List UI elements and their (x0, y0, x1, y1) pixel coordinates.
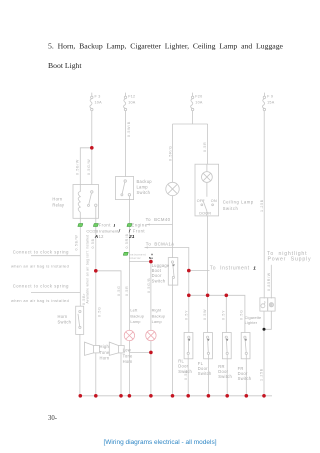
svg-text:0.5W/B: 0.5W/B (127, 121, 131, 137)
wire to BCM40 stub (147, 224, 173, 226)
svg-text:DOOR: DOOR (199, 212, 211, 216)
high tone horn (85, 342, 100, 355)
FR door switch box (241, 333, 250, 359)
svg-text:ON: ON (211, 199, 217, 203)
components group (73, 164, 275, 359)
svg-text:1.25B: 1.25B (260, 368, 264, 381)
arrow from BCMA1A (145, 247, 148, 249)
svg-text:Horn: Horn (123, 359, 133, 364)
wire tee to luggage boot light (172, 124, 174, 182)
svg-text:Backup: Backup (130, 313, 144, 318)
wire horn switch to ground bus (79, 334, 81, 395)
svg-text:0.5G/W: 0.5G/W (87, 159, 91, 175)
horn relay K1 box (73, 185, 99, 219)
node bus FR (245, 394, 249, 398)
svg-text:10A: 10A (128, 100, 136, 104)
svg-text:Switch: Switch (238, 376, 252, 381)
fuse F3 (90, 93, 93, 111)
wire RL door switch drop (188, 295, 190, 332)
cigarette lighter illumination lamp (269, 303, 273, 307)
wire tee horizontal (173, 123, 208, 125)
svg-text:Power Supply: Power Supply (268, 256, 312, 262)
svg-text:0.5W: 0.5W (203, 309, 207, 320)
svg-text:Switch: Switch (152, 278, 166, 283)
wire RR door switch to ground bus (226, 359, 228, 396)
svg-text:0.5B/W: 0.5B/W (75, 235, 79, 251)
svg-text:0.5Y: 0.5Y (222, 310, 226, 320)
svg-text:Tone: Tone (100, 350, 110, 355)
connector green engine (127, 224, 132, 227)
node C junction backup (149, 260, 153, 264)
svg-text:Relay: Relay (52, 202, 65, 207)
svg-text:when an air bag is installed: when an air bag is installed (11, 298, 69, 303)
svg-text:0.5R: 0.5R (125, 286, 129, 296)
node bus left backup (128, 394, 132, 398)
node bus right backup (149, 394, 153, 398)
luggage boot door switch contact (171, 261, 174, 285)
svg-text:0.85R/W: 0.85R/W (267, 272, 271, 291)
node H backup lamps join (149, 351, 153, 355)
svg-text:Engine: Engine (132, 223, 148, 228)
wire clock spring stub 2 (31, 291, 80, 293)
node bus high tone (94, 394, 98, 398)
fuse F20 (191, 93, 194, 111)
svg-text:/: / (118, 229, 121, 234)
svg-text:Connect to clock spring: Connect to clock spring (13, 284, 69, 289)
wire tee to ceiling lamp switch (207, 124, 209, 164)
texts group (11, 121, 311, 381)
wire clock spring stub 1 (31, 255, 80, 257)
node bus low tone (119, 394, 123, 398)
wire right backup lamp to ground bus (150, 340, 152, 396)
node cigarette lighter join (263, 328, 266, 331)
wire connector to high tone horn (95, 227, 97, 346)
node A junction (90, 146, 94, 150)
svg-text:F12: F12 (128, 95, 135, 99)
cigarette lighter element box (260, 298, 268, 311)
svg-text:Right: Right (152, 308, 162, 313)
svg-text:RL: RL (178, 358, 184, 363)
svg-text:Switch: Switch (137, 190, 151, 195)
node E rail RL (187, 294, 191, 298)
horn switch contact (78, 310, 81, 328)
svg-text:[Wiring diagrams electrical -: [Wiring diagrams electrical - all models… (103, 439, 216, 446)
wire left backup lamp to ground bus (128, 340, 130, 396)
svg-text:0.5G: 0.5G (240, 309, 244, 320)
svg-text:I: I (114, 223, 116, 228)
node D junction instrument (187, 269, 191, 273)
svg-text:Switch: Switch (58, 319, 72, 324)
svg-text:Front: Front (99, 223, 112, 228)
ceiling lamp switch lever (201, 200, 214, 216)
luggage boot light (166, 182, 179, 195)
RR door switch box (222, 333, 231, 359)
wire RL door switch to ground bus (187, 359, 189, 396)
wire nightlight supply to cigarette lighter lamp (270, 265, 272, 299)
luggage boot door switch box (168, 258, 178, 286)
horn switch box (76, 306, 84, 334)
wire backup lamp switch to engine connector (128, 200, 130, 224)
svg-text:OFF: OFF (197, 199, 206, 203)
svg-text:0.5G: 0.5G (97, 306, 101, 317)
svg-text:Backup: Backup (137, 179, 153, 184)
svg-text:0.5B: 0.5B (184, 370, 188, 380)
ground bus (79, 395, 273, 397)
svg-text:1: 1 (253, 265, 256, 270)
svg-text:No: No (149, 256, 153, 260)
svg-text:Tone: Tone (123, 353, 133, 358)
node bus cigarette (262, 394, 266, 398)
svg-text:Horn: Horn (58, 314, 68, 319)
left backup lamp (124, 330, 134, 340)
svg-text:F20: F20 (195, 95, 202, 99)
svg-text:10A: 10A (95, 100, 103, 104)
svg-text:0.5B/W: 0.5B/W (75, 159, 79, 175)
ceiling lamp (202, 164, 213, 197)
svg-text:Switch: Switch (218, 374, 232, 379)
wire node A branch to relay coil (80, 148, 92, 185)
wire cigarette lighter element out (263, 311, 265, 329)
backup lamp switch box (116, 177, 134, 200)
node bus RL (186, 394, 190, 398)
wire F20 to tee (192, 111, 194, 124)
svg-text:0.5G/B: 0.5G/B (147, 278, 151, 293)
wire F9 to cigarette lighter (263, 111, 265, 299)
wire from BCMA1A (145, 248, 189, 296)
wire relay coil out to connector (79, 218, 81, 223)
low tone horn (109, 342, 124, 355)
node bus horn switch (79, 394, 83, 398)
connector green relay switch (93, 224, 98, 227)
svg-text:Lamp: Lamp (152, 319, 162, 324)
wire low tone horn to ground bus (120, 353, 122, 396)
svg-text:12: 12 (99, 234, 105, 239)
svg-text:Horn: Horn (100, 356, 110, 361)
right backup lamp (146, 330, 156, 340)
arrow to BCM40 (147, 224, 150, 226)
svg-text:Lighter: Lighter (245, 320, 258, 325)
wire luggage boot door switch to ground bus (172, 285, 174, 396)
cigarette lighter illumination box (268, 298, 275, 311)
wire cigarette lighter to ground bus (263, 329, 265, 396)
svg-text:10A: 10A (195, 100, 203, 104)
wire node A to relay switch (91, 148, 93, 185)
wire relay switch out to connector (95, 218, 97, 223)
wire FL door switch to ground bus (207, 359, 209, 396)
svg-text:when an air bag is installed: when an air bag is installed (11, 263, 69, 268)
svg-text:CC/2B Instrument: CC/2B Instrument (86, 228, 119, 233)
wire door switch rail (189, 295, 245, 332)
label left backup lamp (130, 308, 144, 324)
svg-text:Lamp: Lamp (130, 319, 140, 324)
svg-text:0.5R/G: 0.5R/G (168, 145, 172, 161)
fuse F9 (262, 93, 265, 111)
wire FR door switch to ground bus (245, 359, 247, 396)
wire to instrument stub (189, 270, 210, 272)
wire connector to left backup lamp (128, 227, 130, 331)
wire cigarette lighter lamp out (264, 311, 271, 329)
wire luggage boot light to door switch (172, 196, 174, 258)
svg-text:To BCMA1A: To BCMA1A (146, 241, 175, 246)
svg-text:15A: 15A (267, 100, 275, 104)
backup lamp switch contact (121, 180, 131, 200)
svg-text:1.25B: 1.25B (260, 199, 264, 212)
horn relay contact (88, 191, 98, 219)
fuse F12 (123, 93, 126, 111)
FL door switch box (204, 333, 213, 359)
svg-text:Front: Front (133, 228, 146, 233)
wire node B branch to low tone horn (96, 271, 121, 346)
RL door switch box (184, 333, 193, 359)
svg-text:Switch: Switch (223, 206, 239, 211)
connector green relay coil (78, 224, 83, 227)
svg-text:5. Horn, Backup Lamp, Ciga: 5. Horn, Backup Lamp, Cigaretter Lighter… (48, 41, 284, 50)
node bus RR (225, 394, 229, 398)
svg-text:Low: Low (123, 348, 131, 353)
wire connector to horn switch (79, 227, 81, 307)
svg-text:0.5B: 0.5B (91, 238, 95, 248)
svg-text:Connect to clock spring: Connect to clock spring (13, 250, 69, 255)
svg-text:High: High (100, 344, 110, 349)
node bus luggage (171, 394, 175, 398)
svg-text:F 9: F 9 (267, 95, 273, 99)
svg-text:To Instrument: To Instrument (210, 266, 250, 272)
svg-text:To BCM40: To BCM40 (146, 217, 171, 222)
svg-text:Interior: Interior (129, 256, 141, 260)
wire FL door switch drop (207, 295, 209, 332)
node B junction horn (94, 269, 98, 273)
svg-text:F 3: F 3 (95, 95, 101, 99)
cigarette lighter element (261, 301, 265, 308)
wire F3 to node A (91, 111, 93, 148)
svg-text:Available when an air bag isn': Available when an air bag isn't installe… (85, 235, 89, 304)
svg-text:Horn: Horn (52, 196, 62, 201)
fuse labels (95, 95, 275, 105)
wire backup lamps join (129, 351, 151, 353)
wire node C branch to right backup lamp (129, 262, 151, 331)
horn relay coil (78, 185, 80, 219)
svg-text:0.5G: 0.5G (117, 285, 121, 296)
svg-text:Backup: Backup (152, 313, 166, 318)
svg-text:Lamp: Lamp (137, 185, 149, 190)
svg-text:Door: Door (178, 364, 188, 369)
svg-text:0.5Y: 0.5Y (184, 310, 188, 320)
svg-text:Boot Light: Boot Light (48, 61, 82, 70)
wire high tone horn to ground bus (95, 353, 97, 396)
node G rail RR (225, 294, 229, 298)
wire ceiling lamp switch to rail (207, 216, 209, 295)
svg-text:30-: 30- (48, 415, 58, 422)
wires group (31, 111, 272, 396)
ceiling lamp switch box (195, 164, 219, 216)
svg-text:/: / (128, 229, 131, 234)
svg-text:Left: Left (130, 308, 138, 313)
node F rail FL (206, 294, 210, 298)
svg-text:0.5R: 0.5R (203, 142, 207, 152)
svg-text:0.5Br: 0.5Br (82, 293, 86, 305)
wire F12 to backup lamp switch (125, 111, 127, 177)
svg-text:0.5R/B: 0.5R/B (125, 233, 129, 248)
svg-text:Ceiling Lamp: Ceiling Lamp (223, 200, 254, 205)
label cigarette lighter (245, 315, 262, 325)
svg-text:Switch: Switch (198, 371, 212, 376)
wire RR door switch drop (225, 295, 227, 332)
label right backup lamp (152, 308, 166, 324)
connector green instrument-interior (123, 252, 128, 255)
node bus FL (207, 394, 211, 398)
